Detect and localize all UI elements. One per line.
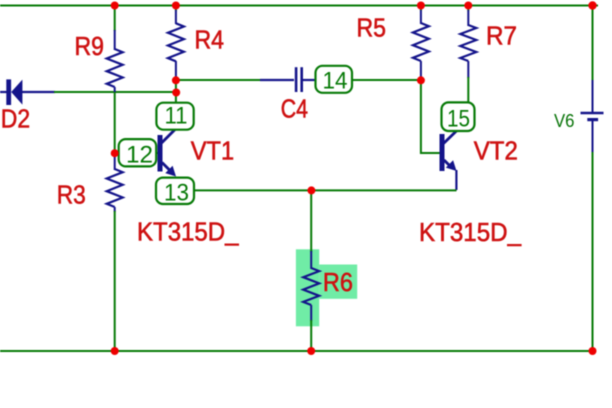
battery V6 xyxy=(554,80,604,152)
svg-text:KT315D_: KT315D_ xyxy=(137,217,239,247)
wire right rail bottom segment xyxy=(592,151,594,351)
junction bottom R3 xyxy=(111,347,119,355)
svg-text:KT315D_: KT315D_ xyxy=(419,217,521,247)
svg-text:V6: V6 xyxy=(554,111,575,131)
svg-text:C4: C4 xyxy=(281,94,308,124)
svg-text:R4: R4 xyxy=(195,25,225,55)
transistor VT2 xyxy=(440,131,457,190)
wire R9 to base node xyxy=(114,92,116,154)
junction node R5-C4 xyxy=(417,76,425,84)
wire emitter net pin13 to VT2 xyxy=(194,189,457,191)
junction top R9 xyxy=(111,2,119,10)
wire node R4 down to VT1 collector pin xyxy=(175,80,177,104)
junction top R5 xyxy=(417,2,425,10)
junction top R7 xyxy=(464,2,472,10)
svg-text:R9: R9 xyxy=(75,31,105,61)
svg-text:12: 12 xyxy=(126,142,153,169)
diode D2 xyxy=(0,79,55,105)
junction top R4 xyxy=(172,2,180,10)
svg-text:14: 14 xyxy=(323,68,348,95)
resistor R9 xyxy=(107,6,123,94)
pin 13 xyxy=(156,178,194,207)
resistor R4 xyxy=(168,6,184,81)
resistor R5 xyxy=(413,6,429,81)
resistor R6 xyxy=(303,251,319,321)
wire node to C4 xyxy=(176,79,261,81)
junction VT1 base xyxy=(111,149,119,157)
svg-text:R5: R5 xyxy=(357,13,387,43)
svg-text:R7: R7 xyxy=(486,21,517,51)
wire right rail top segment xyxy=(592,6,594,83)
junction node D2 xyxy=(172,89,180,97)
svg-text:VT1: VT1 xyxy=(191,136,234,166)
svg-text:13: 13 xyxy=(164,180,189,207)
svg-text:VT2: VT2 xyxy=(474,136,518,166)
junction bottom right corner xyxy=(589,347,597,355)
highlight box R6 label xyxy=(319,265,357,299)
pin 15 xyxy=(442,102,475,132)
junction node R4-C4 xyxy=(172,76,180,84)
wire R5 node down to VT2 base xyxy=(420,80,422,154)
wire R6 to bottom rail xyxy=(310,320,312,351)
wire pin14 to R5 node xyxy=(352,79,421,81)
pin 12 xyxy=(119,139,157,168)
transistor VT1 xyxy=(158,129,177,177)
wire top power rail xyxy=(0,5,598,7)
wire R7 to pin 15 xyxy=(467,77,469,103)
svg-text:D2: D2 xyxy=(1,103,30,133)
wire bottom rail xyxy=(0,350,594,352)
capacitor C4 xyxy=(260,67,316,92)
svg-text:R3: R3 xyxy=(57,180,86,210)
wire D2 to node under R4 xyxy=(54,91,177,93)
highlight box R6 body xyxy=(296,249,319,326)
pin 11 xyxy=(156,103,193,130)
junction emitter net R6 xyxy=(307,186,315,194)
wire VT1 base xyxy=(115,152,158,154)
pin 14 xyxy=(316,66,353,95)
resistor R3 xyxy=(107,153,123,212)
resistor R7 xyxy=(460,6,476,79)
junction bottom R6 xyxy=(307,347,315,355)
svg-text:11: 11 xyxy=(165,103,188,130)
wire emitter net down to R6 xyxy=(310,190,312,252)
junction top right corner xyxy=(588,1,596,9)
wire R3 to bottom rail xyxy=(114,211,116,351)
svg-text:R6: R6 xyxy=(323,267,353,297)
svg-text:15: 15 xyxy=(447,106,470,133)
